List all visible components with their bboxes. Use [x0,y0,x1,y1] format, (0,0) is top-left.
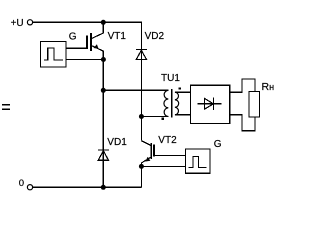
svg-text:0: 0 [19,178,24,189]
transistor VT2 emitter arrow [146,157,151,162]
label G (left generator) [69,31,77,42]
transformer TU1 secondary polarity dot [179,87,181,89]
wire G1 output to VT1 gate [66,47,86,49]
svg-text:VT1: VT1 [108,31,127,42]
transformer TU1 secondary winding [175,92,179,115]
svg-text:+U: +U [11,18,24,29]
transistor VT1 emitter arrow [94,44,99,49]
label +U [11,18,24,29]
node G2 return / VT2 emitter junction [139,164,144,169]
diode VD1 cathode bar [98,149,109,151]
transistor VT1 emitter lead [92,46,103,91]
wire VD2 branch vertical [140,22,142,140]
wire G2 return to VT2 emitter [141,165,185,167]
wire rectifier output plus [230,79,255,92]
wire bottom rail [33,186,142,188]
svg-text:VT2: VT2 [158,135,177,146]
wire primary bottom lead [141,116,168,118]
rectifier diode triangle [205,98,214,109]
svg-text:TU1: TU1 [161,73,180,84]
label = DC symbol [2,104,10,110]
label VT2 [158,135,177,146]
wire top rail [33,21,142,23]
node VD1 anode / bottom rail junction [101,185,106,190]
label G (right generator) [214,139,222,150]
transistor VT1 body bar [90,33,92,51]
transistor VT2 gate bar [153,144,155,156]
node primary bottom / VD2 anode junction [139,114,144,119]
node VT1 emitter / primary top junction [101,88,106,93]
diode VD1 triangle [98,151,108,160]
wire secondary bottom lead [175,114,191,116]
transistor VT2 collector lead [141,141,150,146]
label VT1 [108,31,127,42]
terminal 0 [27,185,32,190]
label Rn [262,81,275,93]
transistor VT2 emitter lead [141,157,150,187]
generator G1 pulse symbol [44,48,63,60]
rectifier diode symbol line [198,103,222,105]
transistor VT1 gate bar [86,35,88,49]
svg-text:Rн: Rн [262,81,275,93]
transformer TU1 core [171,89,173,118]
transistor VT2 body bar [150,143,152,159]
label TU1 [161,73,180,84]
label VD2 [145,31,165,42]
wire G2 output to VT2 gate [155,155,185,157]
node VT1 collector / top rail junction [101,20,106,25]
generator G2 box [186,149,211,173]
rectifier block box [191,85,230,123]
rectifier diode cathode bar [213,98,215,111]
wire VT1 emitter to VD1 to bottom rail [102,90,104,187]
svg-text:VD2: VD2 [145,31,165,42]
transistor VT1 collector lead [92,22,103,38]
generator G2 pulse symbol [189,156,207,167]
svg-text:VD1: VD1 [107,137,127,148]
label VD1 [107,137,127,148]
diode VD2 cathode bar [136,49,147,51]
diode VD2 triangle [136,50,146,59]
wire secondary top lead [175,91,191,93]
svg-text:G: G [214,139,222,150]
node G1 return / emitter junction [101,57,106,62]
wire rectifier output minus [230,115,255,131]
wire primary top lead [103,89,168,91]
label 0 [19,178,24,189]
terminal +U [27,20,32,25]
generator G1 box [41,42,67,68]
transformer TU1 primary polarity dot [162,117,164,119]
resistor Rn load [249,92,260,118]
transformer TU1 primary winding [164,90,168,116]
svg-text:G: G [69,31,77,42]
wire G1 return to VT1 emitter [66,59,103,61]
